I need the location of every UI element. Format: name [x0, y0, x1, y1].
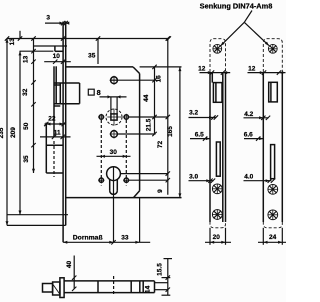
sv-right label 24	[269, 234, 277, 241]
label 13 upper	[9, 38, 16, 46]
dashed line right screw column	[125, 120, 127, 186]
case top-right chamfer	[133, 67, 140, 74]
dim 209 line	[19, 51, 22, 215]
svg-text:6.5: 6.5	[195, 132, 204, 139]
dim square 8 label	[88, 88, 100, 97]
follower cross	[107, 109, 121, 126]
dim 209 top stub	[18, 31, 22, 41]
sv-right dim 6.6	[244, 136, 264, 140]
ext bottom screw	[118, 133, 156, 135]
screw hole right of cylinder	[123, 177, 129, 183]
label 165	[167, 126, 174, 137]
svg-text:12: 12	[248, 65, 256, 72]
svg-text:10: 10	[53, 53, 61, 60]
latch collar top	[54, 84, 60, 86]
bv latch bevel diagonal	[53, 285, 60, 295]
case top extension line	[140, 66, 182, 68]
cylinder axis line	[113, 167, 115, 243]
svg-text:24: 24	[269, 234, 277, 241]
label 11	[54, 130, 61, 137]
sv-left label 3.2	[189, 109, 198, 116]
sv-left bottom extension lines	[210, 228, 226, 245]
label 33	[121, 234, 129, 241]
faceplate top step line B	[20, 50, 54, 52]
bv dashed axis	[113, 276, 115, 296]
sv-left outer edges	[210, 73, 226, 222]
svg-text:12: 12	[198, 65, 206, 72]
209 bottom extension line	[7, 214, 68, 216]
latch collar bottom	[54, 105, 60, 107]
case right edge	[139, 74, 141, 191]
svg-text:3.2: 3.2	[189, 109, 198, 116]
svg-text:3.0: 3.0	[189, 174, 198, 181]
latch bolt bevel line	[55, 66, 57, 104]
latch top edge	[54, 82, 80, 84]
case bottom-right chamfer	[134, 191, 140, 198]
case bottom edge with extension	[66, 197, 182, 199]
svg-text:33: 33	[121, 234, 129, 241]
bv stub top	[162, 277, 171, 279]
sv-right bottom extension lines	[263, 228, 282, 245]
label 30	[110, 149, 118, 156]
sv-right label 4.2	[244, 111, 253, 118]
label 9	[157, 189, 164, 193]
svg-text:Senkung DIN74-Am8: Senkung DIN74-Am8	[200, 2, 273, 11]
label Senkung	[200, 2, 273, 11]
screw hole left of follower	[98, 114, 104, 120]
sv-right bottom cap dashed	[263, 222, 282, 228]
sv-left screw low	[212, 209, 222, 219]
sv-right dim 24	[258, 241, 287, 244]
faceplate inner edge line	[65, 22, 67, 226]
svg-text:8: 8	[97, 88, 101, 97]
dim 3 line	[45, 21, 69, 25]
label 21.5	[145, 118, 152, 131]
faceplate outer edge line	[62, 22, 64, 243]
svg-text:Dornmaß: Dornmaß	[73, 234, 103, 241]
dim chain left line	[31, 36, 35, 173]
deadbolt outline	[46, 123, 63, 174]
sv-right dim 12	[248, 70, 286, 74]
svg-text:11: 11	[54, 130, 61, 137]
sv-left dim 6.5	[190, 136, 210, 140]
bv dim 15.5 top tick	[164, 258, 173, 260]
sv-left label 3.0	[189, 174, 198, 181]
label 35 top	[88, 53, 96, 60]
dim square8 line	[100, 95, 127, 98]
bv bar divider 1	[130, 281, 132, 293]
dim 10 line	[44, 60, 71, 64]
senkung leader left	[221, 22, 245, 46]
svg-text:4.2: 4.2	[244, 111, 253, 118]
bv label 40	[66, 261, 73, 269]
sv-right screw low	[268, 210, 278, 220]
sv-right outer edges	[263, 73, 282, 222]
latch bolt inner line	[59, 83, 61, 104]
follower square hole	[111, 114, 117, 120]
sv-left top cap dashed	[210, 39, 226, 72]
bv latch shaft	[43, 284, 53, 293]
latch box right edge	[79, 83, 81, 104]
sv-left top screw	[213, 44, 222, 53]
label 10	[53, 53, 61, 60]
dim 30 line	[97, 155, 131, 158]
label 235	[0, 127, 5, 138]
label 72	[157, 141, 164, 149]
svg-text:14: 14	[145, 285, 152, 293]
bv bar top edge	[64, 280, 154, 282]
svg-text:3: 3	[46, 14, 50, 21]
senkung leader right	[244, 22, 269, 45]
bv bar divider 2	[139, 281, 141, 293]
dim chain 16/72/9	[166, 36, 170, 195]
bottom screw hole	[110, 130, 119, 139]
sv-left label 12	[198, 65, 206, 72]
bv bar end	[154, 281, 156, 293]
label 13	[22, 55, 29, 63]
svg-text:9: 9	[157, 189, 164, 193]
faceplate bottom edge / 235 extension line	[7, 224, 66, 226]
svg-text:4.0: 4.0	[244, 174, 253, 181]
sv-left dim 3.2	[189, 115, 219, 119]
label 16	[155, 75, 162, 83]
ext cylinder axis	[121, 173, 169, 175]
sv-left dim 12	[200, 70, 231, 74]
ext cylinder screws	[129, 179, 169, 181]
bv label 15.5	[157, 263, 164, 276]
svg-text:40: 40	[66, 261, 73, 269]
svg-text:165: 165	[167, 126, 174, 137]
label 209	[10, 127, 17, 138]
dim 11 line	[40, 135, 71, 139]
label 3	[46, 14, 50, 21]
bv label 14	[145, 285, 152, 293]
sv-left label 6.5	[195, 132, 204, 139]
faceplate top step stub	[55, 46, 63, 51]
bv channel top	[155, 282, 168, 284]
follower square extension lines	[111, 97, 117, 114]
bv bar divider 0	[97, 281, 99, 293]
sv-right screw mid	[268, 184, 278, 194]
ext top screw	[110, 79, 156, 81]
bv channel bottom	[155, 289, 168, 291]
svg-text:32: 32	[22, 88, 29, 96]
label Dornmass	[73, 234, 103, 241]
follower circle	[106, 109, 122, 125]
sv-left slot	[216, 142, 220, 176]
ext follower axis	[129, 116, 169, 118]
sv-left label 20	[213, 234, 221, 241]
label 22	[48, 116, 56, 123]
bv stub bottom	[162, 294, 171, 296]
sv-right latch head	[269, 82, 278, 102]
screw hole right of follower	[123, 114, 129, 120]
svg-text:22: 22	[48, 116, 56, 123]
svg-text:16: 16	[155, 75, 162, 83]
label 35 left	[23, 155, 30, 163]
label 44	[143, 94, 150, 102]
cylinder stem	[110, 179, 118, 194]
sv-right label 6.6	[244, 132, 253, 139]
senkung leader stem	[244, 11, 252, 23]
latch bolt left edge	[53, 66, 55, 137]
sv-left dim 3.0	[189, 179, 216, 183]
svg-text:50: 50	[23, 122, 30, 130]
svg-text:209: 209	[10, 127, 17, 138]
dim chain 44/21.5	[152, 65, 156, 137]
sv-left inner ridge	[222, 73, 224, 222]
bv faceplate flange	[60, 278, 64, 298]
sv-left dim 20	[205, 241, 231, 244]
dim 22 line	[44, 122, 66, 126]
svg-text:235: 235	[0, 127, 5, 138]
dim 35 extension vertical	[97, 39, 99, 65]
svg-text:72: 72	[157, 141, 164, 149]
sv-left bottom cap dashed	[210, 222, 226, 228]
bv bar bottom edge	[64, 292, 154, 294]
bv bar divider 3	[142, 281, 144, 293]
faceplate top step line A	[34, 45, 67, 47]
screw hole left of cylinder	[98, 177, 104, 183]
sv-right dim 4.0	[244, 179, 276, 183]
svg-text:35: 35	[88, 53, 96, 60]
dim 165 line	[178, 67, 181, 198]
sv-left upper ridge stub	[211, 73, 213, 83]
svg-text:6.6: 6.6	[244, 132, 253, 139]
svg-text:13: 13	[22, 55, 29, 63]
bv dim 15.5 line	[166, 258, 170, 295]
label 50	[23, 122, 30, 130]
svg-text:15.5: 15.5	[157, 263, 164, 276]
case top edge	[66, 66, 133, 68]
bv dim 40 line	[72, 256, 76, 292]
svg-text:20: 20	[213, 234, 221, 241]
top dimension line	[5, 36, 171, 40]
label 32	[22, 88, 29, 96]
Dornmass dim line	[63, 240, 150, 244]
sv-left latch head	[213, 83, 222, 103]
top screw hole	[110, 76, 119, 85]
latch bottom edge	[54, 103, 80, 105]
sv-right dim 4.2	[244, 116, 271, 120]
sv-left screw mid	[212, 184, 222, 194]
sv-right label 4.0	[244, 174, 253, 181]
svg-text:30: 30	[110, 149, 118, 156]
sv-right label 12	[248, 65, 256, 72]
sv-right top screw	[268, 44, 277, 53]
deadbolt dashed centerline	[53, 141, 55, 177]
sv-right slot	[271, 145, 275, 179]
svg-text:44: 44	[143, 94, 150, 102]
dim 235 line	[6, 39, 9, 226]
svg-text:35: 35	[23, 155, 30, 163]
svg-text:21.5: 21.5	[145, 118, 152, 131]
sv-right top cap dashed	[263, 39, 282, 72]
dim 22 extension stub	[45, 123, 47, 129]
dashed line left screw column	[100, 120, 102, 186]
cylinder circle	[107, 167, 121, 181]
Dornmass case extension	[139, 198, 141, 243]
bv latch head block	[53, 282, 60, 295]
